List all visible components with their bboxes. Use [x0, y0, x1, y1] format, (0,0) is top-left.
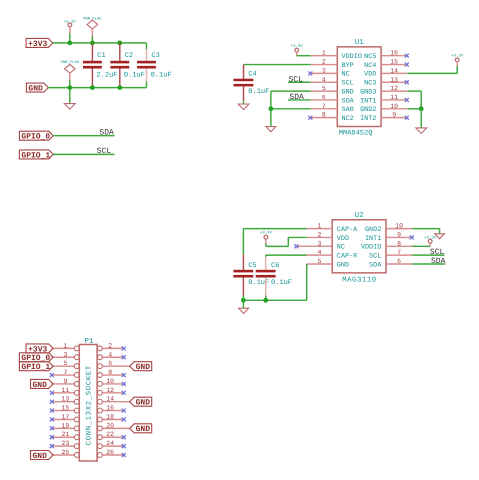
svg-text:NC: NC	[337, 244, 345, 252]
svg-text:20: 20	[106, 422, 114, 429]
svg-text:5: 5	[317, 258, 321, 265]
svg-text:NC3: NC3	[364, 80, 376, 88]
svg-text:10: 10	[106, 378, 114, 385]
wire U2 pin 7 to SCL	[412, 254, 444, 256]
junction at +3.3V stub	[67, 41, 72, 46]
P1 pin 18 socket	[97, 413, 122, 421]
capacitor C5 0.1uF	[233, 254, 269, 300]
svg-text:0.1uF: 0.1uF	[271, 279, 292, 287]
svg-text:23: 23	[61, 440, 69, 447]
svg-text:NC4: NC4	[364, 62, 376, 70]
no-connect X P1 pin 21	[50, 435, 54, 439]
wire U1 pin 14 VDD to +3.3V	[407, 66, 457, 74]
svg-text:INT1: INT1	[360, 97, 376, 105]
U2 pin 9 INT1	[365, 231, 412, 242]
U1 pin 16 NC5	[364, 50, 407, 61]
wire SCL to U1 pin 4	[288, 81, 311, 83]
no-connect X P1 pin 24	[122, 444, 126, 448]
svg-text:BYP: BYP	[342, 62, 354, 70]
svg-text:15: 15	[390, 59, 398, 66]
U1 pin 4 SCL	[311, 76, 354, 87]
svg-text:VDDIO: VDDIO	[342, 53, 362, 61]
wire U2 pin 8 VDDIO to +3.3V	[412, 245, 430, 247]
svg-text:0.1uF: 0.1uF	[151, 72, 172, 80]
svg-text:GND3: GND3	[360, 88, 376, 96]
U1 pin 5 GND	[311, 85, 354, 96]
no-connect X U2 pin 9	[410, 235, 414, 239]
P1 pin 10 socket	[97, 378, 122, 386]
net label SCL at U1 pin 4	[289, 75, 304, 84]
svg-text:INT2: INT2	[360, 115, 376, 123]
U2 pin 7 SCL	[369, 249, 412, 260]
svg-text:14: 14	[390, 67, 398, 74]
hierarchical label GND at P1 pin 14	[130, 397, 152, 407]
U1 pin 14 VDD	[364, 67, 407, 78]
hierarchical label GND at P1 pin 6	[130, 362, 152, 372]
hierarchical label GND at P1 pin 25	[31, 450, 54, 460]
svg-text:GND2: GND2	[360, 106, 376, 114]
U2 pin 3 NC	[297, 240, 345, 251]
capacitor C3 0.1uF	[137, 43, 172, 88]
svg-text:GND: GND	[136, 425, 151, 434]
P1 reference designator	[84, 338, 94, 346]
svg-text:CAP-A: CAP-A	[337, 226, 358, 234]
ground symbol below C4	[238, 104, 249, 110]
P1 pin 9 socket	[52, 378, 80, 386]
svg-text:18: 18	[106, 413, 114, 420]
svg-text:24: 24	[106, 440, 114, 447]
U2 reference designator	[355, 211, 364, 220]
svg-text:8: 8	[322, 112, 326, 119]
svg-text:25: 25	[61, 449, 69, 456]
U2 value MAG3110	[342, 276, 377, 284]
junction C6 bottom	[263, 298, 268, 303]
U1 pin 9 INT2	[360, 112, 407, 123]
svg-text:13: 13	[390, 76, 398, 83]
svg-text:C4: C4	[248, 71, 256, 79]
power symbol +3.3V at U1 pin 1	[291, 44, 311, 56]
no-connect X P1 pin 26	[122, 453, 126, 457]
svg-text:C1: C1	[97, 52, 105, 60]
capacitor C4 0.1uF	[234, 65, 270, 104]
svg-text:4: 4	[317, 249, 321, 256]
svg-text:7: 7	[397, 249, 401, 256]
svg-text:7: 7	[63, 369, 67, 376]
svg-text:GPIO_1: GPIO_1	[21, 151, 50, 160]
P1 pin 6 socket	[97, 360, 129, 368]
no-connect X P1 pin 8	[122, 373, 126, 377]
svg-text:C6: C6	[271, 262, 279, 270]
net label SCL at U2 pin 7	[430, 248, 445, 257]
hierarchical label +3V3 at P1 pin 1	[26, 344, 53, 354]
svg-text:GND: GND	[28, 85, 43, 94]
wire U2 pin 4 CAP-R to C6	[266, 255, 307, 257]
svg-text:7: 7	[322, 103, 326, 110]
wire U1 pin 7 SA0 to GND	[271, 108, 311, 110]
svg-text:GND: GND	[342, 88, 354, 96]
no-connect X P1 pin 18	[122, 417, 126, 421]
svg-text:4: 4	[108, 351, 112, 358]
wire +3V3 rail	[53, 42, 147, 44]
no-connect X P1 pin 16	[122, 409, 126, 413]
no-connect X P1 pin 12	[122, 391, 126, 395]
U1 pin 10 GND2	[360, 103, 407, 114]
P1 pin 15 socket	[52, 405, 80, 413]
svg-text:P1: P1	[84, 338, 94, 346]
junction C2 bottom	[117, 85, 122, 90]
svg-text:26: 26	[106, 449, 114, 456]
net label SDA at U2 pin 6	[431, 257, 446, 266]
power symbol +3.3V at U1 pin 14	[451, 54, 464, 66]
power flag PWR_FLAG 2	[61, 60, 80, 88]
wire U2 pin 1 CAP-A to C5	[243, 229, 306, 255]
U1 pin 6 SDA	[311, 94, 355, 105]
svg-text:GND2: GND2	[365, 226, 381, 234]
capacitor C2 0.1uF	[110, 43, 145, 88]
junction C2 top	[117, 41, 122, 46]
no-connect X U1 pin 8	[308, 116, 312, 120]
junction U1 right gnd net	[419, 106, 424, 111]
op-amp U1 body (IC MMA8452Q outline)	[337, 47, 381, 127]
power symbol +3.3V at U2 pin 8	[424, 236, 437, 247]
U2 pin 10 GND2	[365, 223, 412, 234]
svg-text:GND: GND	[136, 399, 151, 408]
svg-text:9: 9	[397, 231, 401, 238]
svg-text:CAP-R: CAP-R	[337, 252, 357, 260]
svg-text:2: 2	[108, 342, 112, 349]
svg-text:C5: C5	[248, 262, 256, 270]
no-connect X P1 pin 19	[50, 426, 54, 430]
no-connect X U1 pin 11	[405, 98, 409, 102]
hierarchical label GPIO_1 at P1 pin 5	[19, 362, 53, 372]
svg-text:1: 1	[63, 342, 67, 349]
wire SDA to U1 pin 6	[288, 99, 311, 101]
svg-text:4: 4	[322, 76, 326, 83]
svg-text:INT1: INT1	[365, 235, 381, 243]
svg-text:10: 10	[390, 103, 398, 110]
svg-text:2.2uF: 2.2uF	[97, 72, 118, 80]
svg-text:17: 17	[61, 413, 69, 420]
svg-text:6: 6	[322, 94, 326, 101]
no-connect X P1 pin 13	[50, 400, 54, 404]
svg-text:+3V3: +3V3	[28, 40, 47, 49]
junction C5 bottom	[241, 298, 246, 303]
svg-text:11: 11	[390, 94, 398, 101]
ground symbol below C5	[239, 300, 249, 313]
wire U2 bottom gnd rail	[243, 299, 306, 301]
svg-text:CONN_13X2_SOCKET: CONN_13X2_SOCKET	[86, 365, 94, 445]
wire U2 pin 10 GND2 to ground	[412, 229, 439, 234]
svg-text:0.1uF: 0.1uF	[124, 72, 145, 80]
no-connect X U1 pin 16	[405, 54, 409, 58]
P1 pin 26 socket	[97, 449, 122, 457]
P1 pin 22 socket	[97, 431, 122, 439]
hierarchical label GPIO_0	[19, 131, 53, 141]
svg-text:U2: U2	[355, 211, 364, 220]
net label SDA	[99, 128, 114, 137]
P1 pin 14 socket	[97, 396, 129, 404]
svg-text:2: 2	[317, 231, 321, 238]
power symbol +3.3V	[64, 19, 77, 43]
svg-text:0.1uF: 0.1uF	[248, 88, 269, 96]
no-connect X P1 pin 17	[50, 417, 54, 421]
svg-text:SCL: SCL	[97, 147, 112, 156]
svg-text:3: 3	[317, 240, 321, 247]
svg-text:MAG3110: MAG3110	[342, 276, 377, 284]
svg-text:MMA8452Q: MMA8452Q	[339, 130, 373, 138]
svg-text:10: 10	[395, 223, 403, 230]
U2 pin 8 VDDIO	[361, 240, 412, 251]
U1 value MMA8452Q	[339, 130, 373, 138]
junction C1 bottom	[90, 85, 95, 90]
connector P1 body	[79, 345, 97, 462]
power symbol +3.3V at U2 pin 2	[260, 231, 273, 244]
P1 pin 1 socket	[52, 342, 80, 350]
wire GPIO_1 to SCL	[53, 153, 114, 155]
hierarchical label GND	[26, 83, 48, 93]
U1 pin 13 NC3	[364, 76, 407, 87]
svg-text:U1: U1	[355, 39, 365, 47]
capacitor C1 2.2uF	[83, 43, 118, 88]
svg-text:NC: NC	[342, 71, 350, 79]
svg-text:3: 3	[322, 67, 326, 74]
P1 pin 7 socket	[52, 369, 80, 377]
svg-text:SDA: SDA	[342, 97, 355, 105]
svg-text:16: 16	[390, 50, 398, 57]
svg-text:5: 5	[322, 85, 326, 92]
svg-text:1: 1	[322, 50, 326, 57]
no-connect X U1 pin 3	[308, 71, 312, 75]
svg-text:GPIO_0: GPIO_0	[21, 133, 50, 142]
svg-text:NC2: NC2	[342, 115, 354, 123]
P1 pin 4 socket	[97, 351, 122, 359]
U1 pin 2 BYP	[311, 59, 354, 70]
hierarchical label +3V3	[26, 38, 53, 48]
wire U2 pin 2 VDD to +3.3V	[266, 237, 307, 246]
no-connect X P1 pin 23	[50, 444, 54, 448]
svg-text:9: 9	[63, 378, 67, 385]
svg-text:14: 14	[106, 396, 114, 403]
U1 reference designator	[355, 39, 365, 47]
hierarchical label GPIO_0 at P1 pin 3	[19, 353, 53, 363]
svg-text:C2: C2	[125, 52, 133, 60]
svg-text:VDDIO: VDDIO	[361, 244, 381, 252]
svg-text:SDA: SDA	[369, 261, 382, 269]
svg-text:3: 3	[63, 351, 67, 358]
hierarchical label GPIO_1	[19, 150, 53, 160]
P1 pin 3 socket	[52, 351, 80, 359]
svg-text:GND: GND	[337, 261, 349, 269]
no-connect X P1 pin 10	[122, 382, 126, 386]
P1 pin 11 socket	[52, 387, 80, 395]
wire U1 pin 5 GND	[271, 91, 311, 109]
svg-text:SDA: SDA	[99, 128, 114, 137]
wire U1 pin 10 GND2	[407, 108, 421, 110]
svg-text:VDD: VDD	[364, 71, 376, 79]
svg-text:13: 13	[61, 396, 69, 403]
U1 pin 3 NC	[311, 67, 350, 78]
hierarchical label GND at P1 pin 20	[130, 424, 152, 434]
svg-text:SCL: SCL	[430, 248, 445, 257]
no-connect X P1 pin 11	[50, 391, 54, 395]
svg-text:GND: GND	[136, 363, 151, 372]
power flag PWR_FLAG 1	[83, 17, 102, 43]
P1 pin 21 socket	[52, 431, 80, 439]
U2 pin 6 SDA	[369, 258, 412, 269]
P1 pin 8 socket	[97, 369, 122, 377]
wire GND rail	[48, 87, 146, 89]
capacitor C6 0.1uF	[256, 257, 292, 301]
svg-text:NC5: NC5	[364, 53, 376, 61]
wire U2 pin 6 to SDA	[412, 263, 445, 265]
P1 pin 19 socket	[52, 422, 80, 430]
junction U1 gnd net	[269, 106, 274, 111]
ground symbol below U1 pin 7	[266, 109, 276, 132]
svg-text:C3: C3	[151, 52, 159, 60]
P1 pin 17 socket	[52, 413, 80, 421]
no-connect X U1 pin 9	[405, 116, 409, 120]
svg-text:GND: GND	[33, 452, 48, 461]
svg-text:22: 22	[106, 431, 114, 438]
U1 pin 7 SA0	[311, 103, 354, 114]
U1 pin 11 INT1	[360, 94, 407, 105]
svg-text:8: 8	[108, 369, 112, 376]
junction C1 top	[90, 41, 95, 46]
net label SDA at U1 pin 6	[289, 93, 304, 102]
svg-text:11: 11	[61, 387, 69, 394]
wire U1 pin 12 GND3	[407, 91, 421, 109]
svg-text:5: 5	[63, 360, 67, 367]
svg-text:2: 2	[322, 59, 326, 66]
U1 pin 15 NC4	[364, 59, 407, 70]
P1 pin 13 socket	[52, 396, 80, 404]
P1 pin 5 socket	[52, 360, 80, 368]
svg-text:6: 6	[108, 360, 112, 367]
U1 pin 8 NC2	[311, 112, 354, 123]
no-connect X U1 pin 15	[405, 63, 409, 67]
svg-text:9: 9	[392, 112, 396, 119]
svg-text:1: 1	[317, 223, 321, 230]
no-connect X U2 pin 3	[294, 244, 298, 248]
svg-text:VDD: VDD	[337, 235, 349, 243]
svg-text:SDA: SDA	[431, 257, 446, 266]
P1 value CONN_13X2_SOCKET vertical	[86, 365, 94, 445]
P1 pin 24 socket	[97, 440, 122, 448]
P1 pin 2 socket	[97, 342, 122, 350]
svg-text:SA0: SA0	[342, 106, 354, 114]
wire U2 pin 5 GND down	[306, 264, 308, 300]
junction GND rail at flag stub	[67, 85, 72, 90]
ground symbol top-left	[64, 88, 75, 110]
P1 pin 25 socket	[52, 449, 80, 457]
net label SCL	[97, 147, 112, 156]
svg-text:21: 21	[61, 431, 69, 438]
svg-text:GPIO_1: GPIO_1	[21, 363, 50, 372]
op-amp U2 body (IC MAG3110 outline)	[332, 220, 386, 273]
P1 pin 16 socket	[97, 405, 122, 413]
U1 pin 12 GND3	[360, 85, 407, 96]
ground symbol below U1 pin 10	[416, 109, 427, 134]
svg-text:GND: GND	[33, 381, 48, 390]
P1 pin 23 socket	[52, 440, 80, 448]
wire U1 pin 2 to C4	[244, 64, 311, 66]
no-connect X P1 pin 15	[50, 409, 54, 413]
hierarchical label GND at P1 pin 9	[31, 379, 54, 389]
U2 pin 5 GND	[307, 258, 349, 269]
svg-text:16: 16	[106, 405, 114, 412]
svg-text:15: 15	[61, 405, 69, 412]
no-connect X P1 pin 7	[50, 373, 54, 377]
no-connect X P1 pin 4	[122, 355, 126, 359]
svg-text:19: 19	[61, 422, 69, 429]
ground symbol at U2 pin 10	[435, 234, 445, 239]
svg-text:12: 12	[106, 387, 114, 394]
svg-text:8: 8	[397, 240, 401, 247]
P1 pin 12 socket	[97, 387, 122, 395]
U2 pin 2 VDD	[307, 231, 349, 242]
P1 pin 20 socket	[97, 422, 129, 430]
U2 pin 1 CAP-A	[307, 223, 359, 234]
svg-text:6: 6	[397, 258, 401, 265]
svg-text:12: 12	[390, 85, 398, 92]
svg-text:SCL: SCL	[342, 80, 354, 88]
no-connect X P1 pin 22	[122, 435, 126, 439]
U1 pin 1 VDDIO	[311, 50, 362, 61]
no-connect X P1 pin 2	[122, 346, 126, 350]
no-connect X U1 pin 13	[405, 80, 409, 84]
U2 pin 4 CAP-R	[307, 249, 358, 260]
wire GPIO_0 to SDA	[53, 135, 114, 137]
svg-text:SCL: SCL	[369, 252, 381, 260]
